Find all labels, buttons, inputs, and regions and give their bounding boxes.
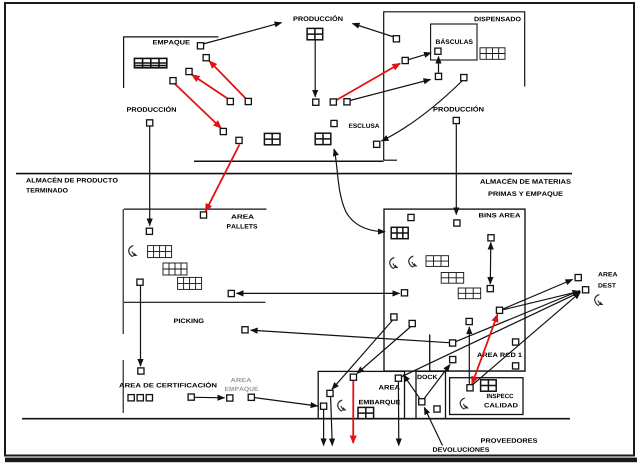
arrow devoluciones to dock node — [424, 408, 442, 446]
arrow empaque to produccion label — [203, 23, 282, 44]
label DEVOLUCIONES — [433, 447, 489, 452]
label AREA DE CERTIFICACION — [119, 382, 216, 388]
arrow exit V2 — [331, 397, 333, 445]
label AREA PALLETS — [231, 214, 254, 218]
table bins 3 — [441, 273, 464, 284]
double arrow bins vertical — [489, 243, 492, 285]
arrow inspec node to B — [472, 292, 580, 385]
table embarque — [358, 407, 374, 418]
node n27 — [454, 220, 460, 226]
arrow n15 to basculas node — [408, 53, 431, 60]
wire embarque top node to B — [401, 292, 580, 377]
red arrow n4 to n7 — [175, 84, 221, 128]
node n14 — [393, 36, 399, 42]
node n28 — [488, 235, 494, 241]
label AREA RCD 1 — [477, 353, 522, 357]
node n38 — [450, 357, 456, 363]
wire rcd1 node to B — [456, 291, 581, 342]
wall: pallets area left upper — [122, 209, 124, 334]
node n34 picking — [242, 327, 248, 333]
red arrow n6 to n2 — [209, 61, 246, 100]
arrow curve to esclusa node — [382, 81, 463, 141]
wall: almacen separator line — [16, 173, 572, 175]
node n20 produccion left — [147, 120, 153, 126]
arrow dock node to rcd node — [424, 365, 450, 399]
node n8 — [236, 137, 242, 143]
node n31 — [409, 320, 415, 326]
bottom thick bar — [5, 458, 637, 463]
wire rcd1 vertical — [429, 335, 431, 372]
arrow n35 to area dest A — [503, 280, 573, 310]
label PROVEEDORES — [481, 438, 537, 443]
node n26 — [408, 214, 414, 220]
node A area dest — [575, 275, 581, 281]
label AREA DEST — [598, 272, 617, 276]
arrow certification to node — [195, 396, 225, 399]
label DOCK — [417, 375, 437, 379]
certification square 2 — [137, 395, 143, 401]
box dock — [416, 371, 446, 418]
node n22 pallets — [200, 212, 206, 218]
label AREA EMBARQUE — [379, 385, 400, 389]
node n12 — [331, 120, 337, 126]
table inspec — [481, 380, 497, 391]
node n5 — [227, 98, 233, 104]
box area rcd1 — [430, 335, 525, 371]
node B area dest — [583, 287, 589, 293]
label DISPENSADO — [474, 17, 520, 22]
curve double arrow esclusa table to bins rack — [334, 149, 385, 232]
table production top — [307, 28, 323, 39]
recycle embarque — [338, 400, 347, 411]
node n23 — [137, 279, 143, 285]
node n36 — [513, 339, 519, 345]
box dispensado bottom stub — [384, 159, 397, 161]
table pallets 2 — [163, 263, 187, 275]
label TERMINADO — [26, 188, 68, 193]
arrow inspec node up to bins node — [468, 327, 470, 384]
table dispensado — [480, 48, 505, 60]
label BASCULAS — [436, 38, 473, 44]
node n47 — [227, 395, 233, 401]
node n44 embarque right — [395, 375, 401, 381]
table bins 4 — [458, 288, 481, 299]
node n16 basculas — [435, 48, 441, 54]
arrow pallets node down to certification — [140, 286, 142, 366]
node n10 — [330, 99, 336, 105]
node n39 inspec — [467, 385, 473, 391]
red arrow esclusa row to dispensado node — [337, 64, 400, 101]
node n37 — [513, 363, 519, 369]
node n15 — [402, 57, 408, 63]
arrow n35 to area dest B — [503, 291, 579, 309]
node n6 — [245, 98, 251, 104]
arrow production table down — [314, 40, 316, 97]
node n3 — [186, 68, 192, 74]
node n32 — [466, 318, 472, 324]
label ALMACEN DE MATERIAS — [480, 178, 571, 184]
node n17 — [435, 73, 441, 79]
table pallets 3 — [178, 277, 202, 289]
box inspec calidad — [450, 378, 523, 415]
box dispensado — [384, 12, 525, 160]
recycle bins 1 — [390, 258, 399, 269]
double arrow pallets to bins — [237, 292, 400, 294]
wall: empaque corner — [124, 37, 219, 88]
recycle bins 2 — [409, 256, 418, 267]
arrow produccion left down — [149, 127, 151, 226]
table empaque rack — [134, 58, 166, 67]
label EMPAQUE — [153, 40, 190, 46]
arrow produccion right down to bins — [455, 125, 457, 215]
red arrow n8 to pallets node — [206, 145, 240, 212]
red arrow exit V3 — [352, 381, 354, 443]
node n21 — [146, 228, 152, 234]
arrow bins node to embarque red node — [357, 327, 410, 374]
certification square 3 — [146, 395, 152, 401]
label ALMACEN DE PRODUCTO — [26, 177, 118, 183]
arrow vertical into basculas node — [438, 57, 440, 73]
label PRODUCCION top — [293, 15, 342, 21]
node n35 — [496, 307, 502, 313]
wall: street line — [22, 418, 570, 420]
table esclusa left — [264, 133, 280, 144]
label PRIMAS Y EMPAQUE — [488, 191, 562, 197]
node n25 — [401, 290, 407, 296]
arrow exit V4 — [397, 382, 399, 446]
arrow bins to picking node — [251, 330, 449, 343]
wall: pallets area top — [124, 208, 267, 210]
label INSPECC CALIDAD — [487, 394, 513, 398]
table esclusa right — [315, 133, 331, 144]
label AREA EMPAQUE gray — [231, 378, 252, 382]
red double arrow inspec to n35 — [472, 315, 498, 385]
label PICKING — [174, 319, 204, 324]
table bins 2 — [426, 256, 449, 267]
node n1 — [197, 43, 203, 49]
recycle area dest — [595, 295, 604, 306]
recycle pallets — [129, 246, 138, 257]
node n43 embarque red — [350, 374, 356, 380]
node n24 — [228, 290, 234, 296]
node n9 — [313, 99, 319, 105]
table bins rack — [391, 227, 408, 238]
node n42 embarque — [327, 390, 333, 396]
arrow exit V1 — [323, 410, 325, 446]
arrow empaque gray node to embarque — [255, 398, 318, 406]
node n33 — [450, 340, 456, 346]
node n48 — [248, 394, 254, 400]
table pallets 1 — [148, 246, 172, 258]
node n45 embarque left — [321, 403, 327, 409]
node n30 — [391, 314, 397, 320]
arrow bins corner to embarque node — [332, 321, 392, 390]
box area embarque — [318, 371, 404, 418]
wall: production area bottom line — [194, 160, 384, 162]
node n13 esclusa — [374, 141, 380, 147]
label PRODUCCION right — [433, 106, 483, 112]
wall: picking divider — [124, 301, 266, 303]
label BINS AREA — [479, 213, 520, 217]
node n11 — [344, 99, 350, 105]
node n19 — [453, 117, 459, 123]
arrow dispensado node to produccion label — [353, 24, 395, 38]
box bins area — [384, 209, 525, 371]
arrow esclusa row to basculas lower node — [350, 80, 431, 101]
arrow dock node to embarque top node — [403, 375, 420, 399]
node n29 — [487, 286, 493, 292]
box basculas — [431, 24, 477, 60]
node n41 dock2 — [434, 406, 440, 412]
node n40 dock — [419, 399, 425, 405]
label PRODUCCION left — [127, 106, 176, 112]
node n46 certification — [188, 394, 194, 400]
wall: pallets area left lower — [122, 360, 124, 413]
node n2 — [203, 55, 209, 61]
certification square 1 — [128, 395, 134, 401]
recycle inspec — [460, 398, 469, 409]
node n7 — [220, 128, 226, 134]
red arrow n5 to n3 — [192, 75, 229, 100]
label ESCLUSA — [349, 124, 379, 128]
node n49 certification top — [138, 368, 144, 374]
node n4 — [170, 78, 176, 84]
node n18 — [461, 75, 467, 81]
